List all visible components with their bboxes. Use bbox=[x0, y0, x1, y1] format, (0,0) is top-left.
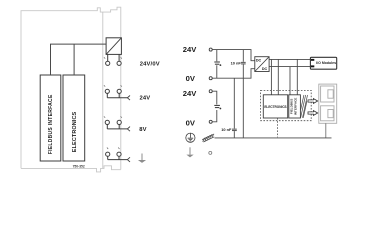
hatched connection band bbox=[301, 95, 308, 118]
terminal 24V field bbox=[209, 90, 212, 93]
functional earth symbol bbox=[186, 133, 195, 142]
power jumper contact 24V row1 bbox=[106, 54, 110, 65]
wire 24V system rail bbox=[212, 50, 255, 61]
wire DC/DC output upper bbox=[269, 58, 310, 60]
svg-text:DC: DC bbox=[262, 67, 268, 71]
capacitor C1 10nF branch bbox=[241, 50, 246, 138]
fieldbus interface box right bbox=[289, 95, 301, 118]
capacitor C2 10nF branch bbox=[232, 78, 237, 138]
dashed coupler boundary box bbox=[261, 90, 312, 120]
terminal 0V system bbox=[209, 77, 212, 80]
electronics box right bbox=[263, 95, 287, 118]
contact ticks row3 bbox=[104, 116, 122, 118]
svg-text:DC: DC bbox=[256, 58, 262, 62]
contact ticks row1 bbox=[104, 57, 122, 59]
svg-text:0V: 0V bbox=[186, 118, 196, 127]
small circle marker bbox=[209, 151, 212, 154]
field contact row3 8V bbox=[105, 120, 130, 131]
block arrow upper bbox=[308, 99, 318, 104]
field contact row4 bbox=[106, 152, 130, 162]
down arrow ground 2 bbox=[186, 147, 193, 157]
svg-text:0V: 0V bbox=[186, 74, 196, 83]
wire tap to electronics 1 bbox=[270, 59, 272, 94]
down arrow under module (DIN rail ground) bbox=[138, 154, 146, 163]
svg-text:10 nF: 10 nF bbox=[231, 61, 242, 66]
wire tap to fieldbus 2 bbox=[296, 59, 298, 94]
contact ticks row4 bbox=[107, 148, 120, 150]
svg-text:FIELDBUS INTERFACE: FIELDBUS INTERFACE bbox=[48, 94, 54, 154]
filter capacitor field section bbox=[214, 105, 221, 110]
wire chassis line bbox=[215, 137, 332, 139]
svg-text:10 nF: 10 nF bbox=[221, 127, 232, 132]
svg-text:24V/0V: 24V/0V bbox=[140, 61, 160, 67]
fieldbus interface block bbox=[40, 75, 61, 161]
chassis earth symbol (hatched) bbox=[202, 134, 214, 142]
svg-text:24V: 24V bbox=[183, 45, 197, 54]
wire internal supply bus bbox=[51, 44, 107, 75]
svg-text:ELECTRONICS: ELECTRONICS bbox=[264, 105, 287, 109]
module outline 750-352 side profile bbox=[21, 7, 121, 172]
wire tap to fieldbus 1 bbox=[289, 67, 291, 95]
wire field section bbox=[212, 91, 217, 122]
power jumper converter box bbox=[106, 38, 121, 55]
terminal 0V field bbox=[209, 120, 212, 123]
power jumper contact 0V row1 bbox=[117, 54, 121, 65]
svg-text:8V: 8V bbox=[139, 127, 146, 133]
svg-text:24V: 24V bbox=[140, 96, 151, 102]
svg-text:24V: 24V bbox=[183, 89, 197, 98]
filter capacitor system section bbox=[214, 50, 221, 79]
svg-text:ELECTRONICS: ELECTRONICS bbox=[72, 111, 78, 152]
wire 0V system rail bbox=[212, 69, 255, 79]
contact ticks row2 bbox=[104, 85, 122, 87]
terminal 24V system bbox=[209, 48, 212, 51]
field contact row2 24V bbox=[105, 89, 130, 100]
svg-text:I/O Modules: I/O Modules bbox=[316, 61, 336, 65]
svg-text:750-352: 750-352 bbox=[73, 164, 85, 168]
electronics block bbox=[63, 75, 85, 161]
I/O Modules box bbox=[310, 57, 336, 69]
DC/DC converter U1 bbox=[255, 57, 269, 72]
svg-text:INTERFACE: INTERFACE bbox=[293, 98, 297, 116]
fieldbus connectors bbox=[319, 84, 337, 123]
dashed wire electronics to chassis bbox=[277, 118, 279, 137]
wire DC/DC output lower bbox=[269, 66, 310, 68]
block arrow lower bbox=[308, 111, 318, 116]
wire connector shield drop bbox=[325, 123, 327, 138]
wire tap to electronics 2 bbox=[277, 59, 279, 94]
